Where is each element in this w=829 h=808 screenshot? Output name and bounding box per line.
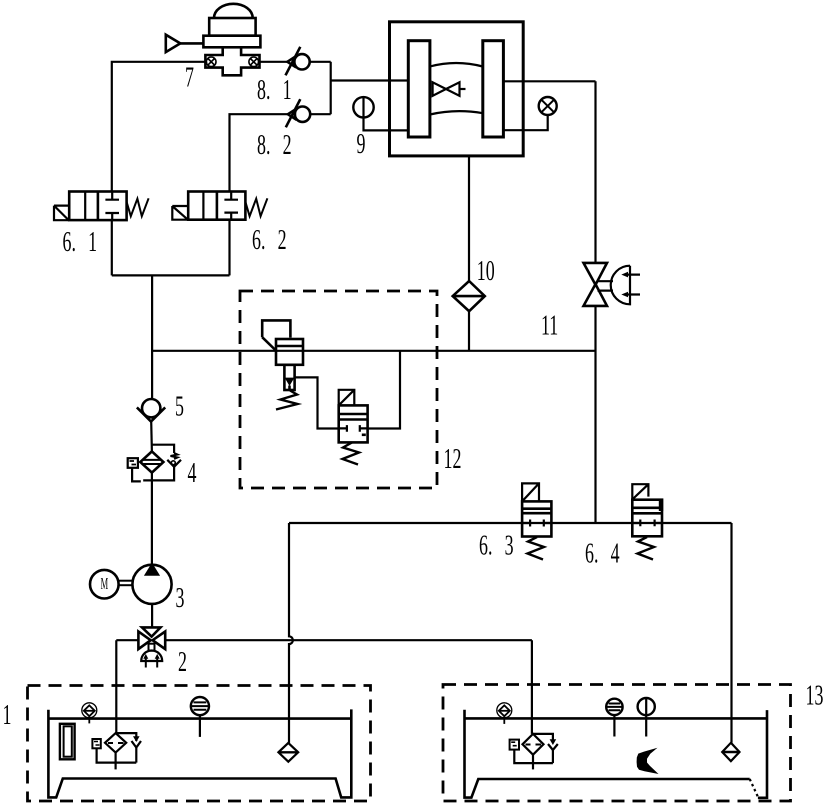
svg-text:9: 9	[357, 129, 366, 160]
svg-text:3: 3	[176, 583, 185, 614]
svg-text:1: 1	[3, 700, 12, 731]
svg-text:10: 10	[477, 256, 495, 287]
svg-text:5: 5	[175, 392, 184, 423]
svg-text:12: 12	[444, 444, 462, 475]
svg-text:2: 2	[178, 647, 187, 678]
svg-text:M: M	[101, 574, 109, 593]
svg-text:7: 7	[185, 63, 194, 94]
svg-text:4: 4	[188, 458, 197, 489]
svg-text:13: 13	[806, 681, 824, 712]
svg-text:11: 11	[541, 311, 558, 342]
